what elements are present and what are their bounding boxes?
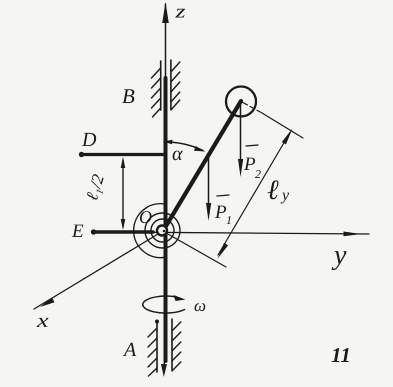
inclined rod O to ball xyxy=(163,101,241,231)
origin circle inner xyxy=(151,219,174,242)
bar E xyxy=(93,230,153,233)
ball xyxy=(226,87,256,117)
shaft (thick vertical rod) xyxy=(164,78,168,361)
bearing A right wall xyxy=(171,319,173,370)
extension line from O xyxy=(167,234,226,268)
x-axis line xyxy=(34,231,163,309)
extension line from ball solid part xyxy=(262,113,303,138)
bearing B right hatching xyxy=(171,62,180,110)
svg-text:A: A xyxy=(122,339,137,361)
y-axis line xyxy=(150,232,369,234)
svg-text:ℓ: ℓ xyxy=(267,175,279,206)
force P1 line xyxy=(208,157,210,206)
rod dimension lower arrowhead xyxy=(218,243,229,259)
z-axis arrowhead xyxy=(162,2,169,23)
label P1 overbar xyxy=(217,195,229,196)
shaft bottom arrowhead xyxy=(161,364,167,377)
svg-text:2: 2 xyxy=(255,167,261,181)
bar D end dot xyxy=(79,152,84,157)
bar E end dot xyxy=(91,229,96,234)
bearing A left wall top dot xyxy=(155,320,159,324)
svg-text:z: z xyxy=(174,2,186,23)
y-axis arrowhead xyxy=(344,232,362,237)
bearing B left hatching xyxy=(152,68,161,117)
svg-text:B: B xyxy=(122,84,135,108)
svg-text:O: O xyxy=(139,207,152,227)
svg-text:x: x xyxy=(36,310,49,332)
bearing B right wall xyxy=(170,60,172,109)
origin pin center dot xyxy=(163,230,166,233)
bar D xyxy=(81,153,165,156)
dimension arrow up xyxy=(121,157,126,168)
dimension arrow down xyxy=(121,219,126,230)
rod length dimension line xyxy=(218,133,290,256)
omega arrowhead xyxy=(174,295,186,301)
svg-text:y: y xyxy=(331,240,347,271)
force P1 arrowhead xyxy=(206,203,211,221)
label P2 overbar xyxy=(246,145,258,146)
bearing A left hatching xyxy=(148,328,157,376)
svg-text:11: 11 xyxy=(331,343,351,367)
rod dimension upper arrowhead xyxy=(282,129,293,145)
alpha arc right arrowhead xyxy=(194,146,206,152)
svg-text:y: y xyxy=(280,187,290,204)
origin outer arc xyxy=(134,204,165,258)
svg-text:α: α xyxy=(172,143,183,165)
svg-text:ω: ω xyxy=(194,296,206,315)
bearing B left wall xyxy=(160,61,162,110)
x-axis arrowhead xyxy=(40,298,55,308)
z-axis line xyxy=(165,4,167,82)
force P2 arrowhead xyxy=(238,159,243,177)
bearing A right hatching xyxy=(172,322,181,371)
bearing A left wall xyxy=(156,321,158,372)
alpha arc left arrowhead xyxy=(163,140,173,145)
svg-text:E: E xyxy=(71,221,84,242)
omega rotation arc xyxy=(143,296,185,313)
svg-text:D: D xyxy=(81,129,97,151)
origin pin xyxy=(157,226,167,236)
origin circle outer xyxy=(145,213,180,248)
extension line from ball (dashed near ball) xyxy=(243,103,262,114)
dimension line l1/2 xyxy=(122,160,124,227)
shaft bottom thin end xyxy=(163,358,166,370)
force P2 line xyxy=(240,103,242,162)
svg-text:1: 1 xyxy=(226,213,232,227)
angle arc alpha xyxy=(164,142,203,151)
